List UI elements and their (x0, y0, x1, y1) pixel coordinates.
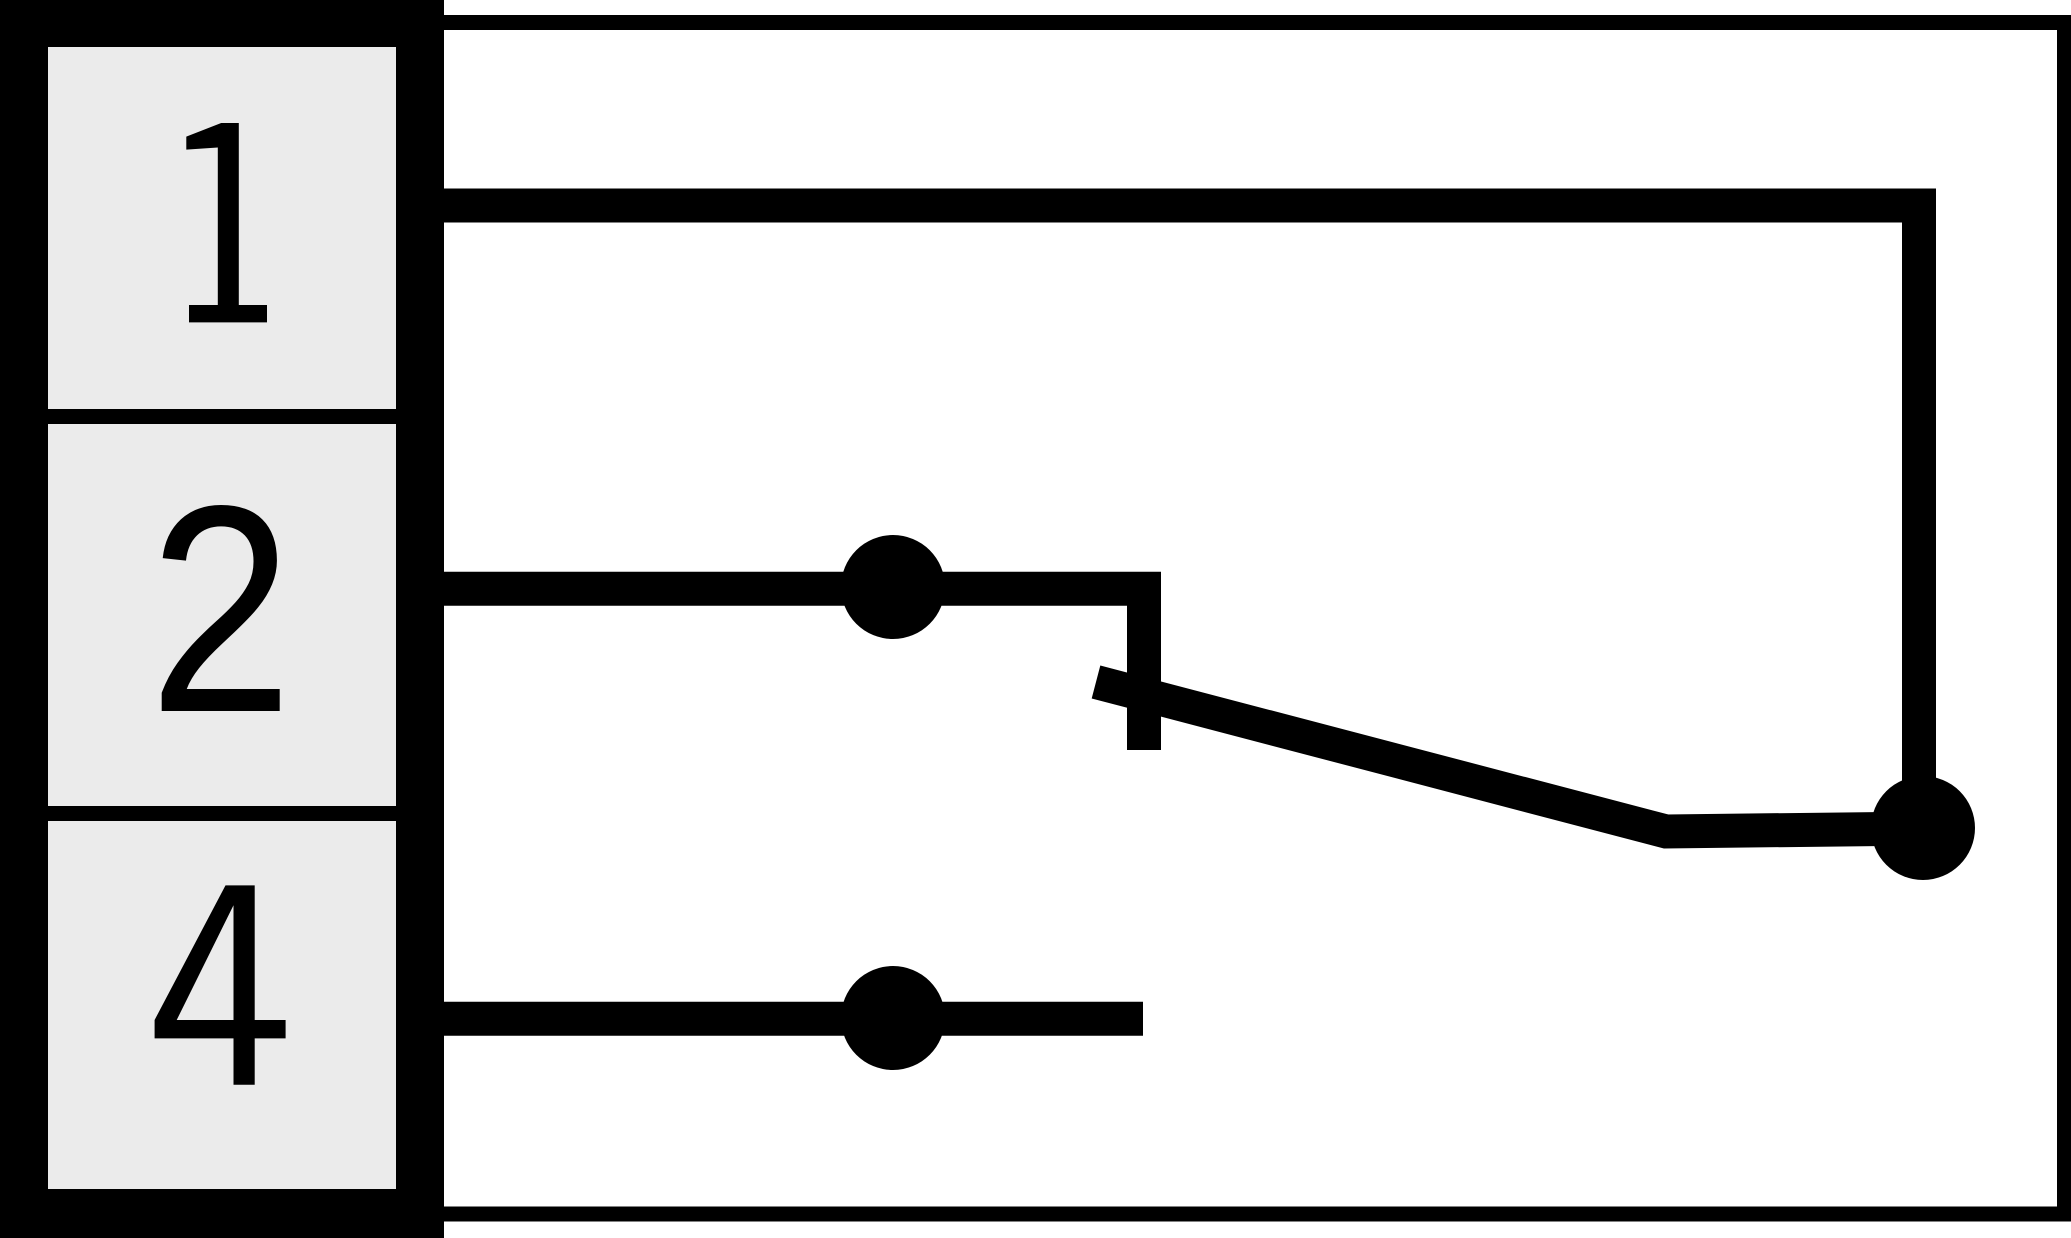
enclosure frame (444, 23, 2065, 1215)
wire pin 4 (NO contact) (444, 1002, 1143, 1036)
connector body J1 (0, 0, 444, 1238)
pin label 1 (186, 123, 267, 322)
wire pin 1 to common node (444, 206, 1919, 829)
junction node on wire 2 (841, 535, 945, 639)
pin label 2 (149, 444, 293, 773)
switch contact arm (NC contact) (1096, 682, 1923, 832)
terminal cell pin 2 (48, 424, 396, 806)
wire pin 2 to switch pivot (444, 589, 1144, 750)
junction node on wire 4 (841, 966, 945, 1070)
terminal cell pin 4 (48, 821, 396, 1189)
common junction node (1871, 776, 1975, 880)
pin label 4 (155, 885, 286, 1084)
terminal cell pin 1 (48, 47, 396, 409)
svg-text:2: 2 (149, 444, 293, 773)
